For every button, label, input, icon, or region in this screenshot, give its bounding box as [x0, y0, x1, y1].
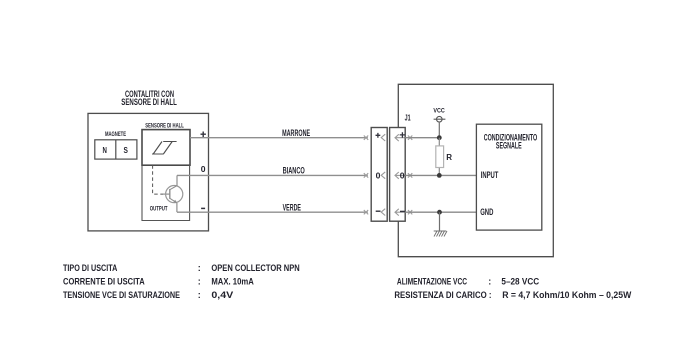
svg-text:INPUT: INPUT [481, 170, 499, 180]
x-mark wire end left row3 [364, 210, 368, 214]
svg-text:CORRENTE DI USCITA: CORRENTE DI USCITA [63, 277, 145, 287]
svg-text:RESISTENZA DI CARICO :: RESISTENZA DI CARICO : [394, 290, 491, 300]
svg-text:0,4V: 0,4V [211, 290, 233, 300]
svg-text:OPEN COLLECTOR NPN: OPEN COLLECTOR NPN [211, 263, 299, 273]
pin label + [201, 132, 206, 138]
junction node VCC/+ [437, 135, 442, 140]
junction node GND [437, 210, 442, 215]
x-mark wire end left row1 [364, 136, 368, 140]
spec text right column [394, 277, 631, 301]
svg-text:0: 0 [400, 170, 405, 180]
resistor R body [436, 146, 444, 168]
junction node INPUT [437, 173, 442, 178]
left connector pin - [376, 209, 386, 216]
right connector pin + with arrow [395, 132, 405, 141]
svg-text::: : [198, 277, 201, 287]
x-mark wire start right row1 [408, 136, 412, 140]
svg-text:SENSORE DI HALL: SENSORE DI HALL [121, 97, 177, 107]
right connector pin 0 with arrow [395, 170, 405, 180]
svg-text:SEGNALE: SEGNALE [496, 141, 522, 151]
enclosure box contalitri [88, 113, 209, 230]
svg-text:5–28 VCC: 5–28 VCC [501, 277, 539, 287]
left connector pin 0 [376, 170, 386, 180]
svg-text:ALIMENTAZIONE VCC: ALIMENTAZIONE VCC [397, 277, 468, 287]
svg-text:MAGNETE: MAGNETE [105, 131, 126, 138]
label CONDIZIONAMENTO SEGNALE [484, 133, 538, 151]
svg-text:GND: GND [480, 207, 494, 217]
spec text left column [63, 263, 300, 300]
wire MARRONE [190, 137, 368, 139]
ground symbol [434, 212, 447, 236]
svg-text:SENSORE DI HALL: SENSORE DI HALL [145, 122, 184, 129]
svg-text:0: 0 [201, 164, 206, 174]
left connector pin + [376, 133, 386, 141]
svg-text:S: S [124, 145, 129, 155]
svg-text:OUTPUT: OUTPUT [150, 206, 168, 213]
svg-text:J1: J1 [405, 113, 411, 122]
VCC port symbol [434, 116, 446, 135]
x-mark wire start right row3 [408, 210, 412, 214]
svg-text::: : [488, 277, 491, 287]
svg-text:0: 0 [376, 170, 381, 180]
hall sensor box [142, 130, 190, 166]
dashed link hall to transistor base [153, 165, 163, 194]
svg-text:VERDE: VERDE [283, 203, 301, 213]
wire VCC row [405, 137, 439, 139]
svg-text:R: R [446, 153, 452, 162]
right connector pin - with arrow [395, 209, 405, 216]
magnet N S box [95, 140, 137, 159]
wire GND row [405, 211, 476, 213]
title CONTALITRI CON SENSORE DI HALL [121, 89, 177, 107]
wire BIANCO [177, 174, 368, 176]
svg-text:TENSIONE VCE DI SATURAZIONE: TENSIONE VCE DI SATURAZIONE [63, 290, 180, 300]
transistor Q1 open collector NPN [166, 175, 183, 212]
pin label - [201, 207, 205, 209]
svg-text:VCC: VCC [433, 107, 445, 114]
svg-text:TIPO DI USCITA: TIPO DI USCITA [63, 263, 118, 273]
x-mark wire start right row2 [408, 173, 412, 177]
signal conditioning outer box [398, 84, 553, 256]
wire VERDE [177, 211, 368, 213]
svg-text:R = 4,7 Kohm/10 Kohm – 0,25W: R = 4,7 Kohm/10 Kohm – 0,25W [502, 290, 632, 300]
svg-text:MARRONE: MARRONE [282, 128, 310, 138]
svg-text:MAX. 10mA: MAX. 10mA [211, 277, 254, 287]
wire INPUT row [405, 174, 476, 176]
output sub-box [142, 165, 190, 220]
connector block left [371, 128, 387, 222]
conditioning inner box [476, 124, 541, 230]
resistor R leads [438, 138, 440, 146]
svg-text:N: N [103, 145, 107, 155]
svg-text::: : [198, 263, 201, 273]
connector block right J1 [390, 128, 406, 222]
svg-text:BIANCO: BIANCO [283, 166, 305, 176]
hall element parallelogram [152, 142, 177, 155]
svg-text::: : [198, 290, 201, 300]
x-mark wire end left row2 [364, 173, 368, 177]
